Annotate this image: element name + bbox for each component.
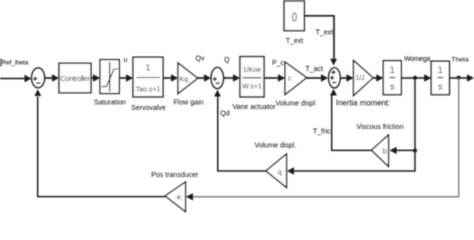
svg-text:P_c: P_c [272,60,285,67]
wire 0 block to sum3 top [304,16,334,60]
wire S1 to Controller [45,77,53,79]
node Theta junction [457,76,461,80]
saturation icon [109,62,111,92]
wire Vane to gain c [264,77,279,79]
block Controller [59,63,91,92]
wire S3 to 1/J [340,77,347,79]
svg-text:b: b [383,147,387,156]
wire tap to gain b [396,149,415,151]
wire S2 to Vane actuator [224,77,234,79]
wire 1/J to integrator1 [373,77,377,79]
svg-text:Servovalve: Servovalve [131,105,166,112]
svg-text:T_ext: T_ext [316,30,334,37]
svg-text:Controller: Controller [60,74,90,83]
svg-text:u: u [124,57,128,64]
gain -K (Pos transducer) [165,182,185,212]
svg-text:Viscous friction: Viscous friction [357,124,404,131]
svg-text:Kq: Kq [180,77,189,84]
wire c to sum3 [307,77,321,79]
svg-text:Volume displ.: Volume displ. [255,143,297,150]
wire integrator1 to integrator2 [401,77,425,79]
gain 1/J (Inertia moment) [354,61,374,96]
svg-text:1: 1 [438,65,443,75]
node Womega junction [413,76,417,80]
block Saturation [100,60,119,94]
svg-text:Womega: Womega [404,56,430,63]
svg-text:Flow gain: Flow gain [174,99,204,106]
svg-text:1: 1 [146,62,151,72]
block integrator 1 [383,61,401,95]
gain q (Volume displ feedback) [266,154,287,188]
S1 plus sign [33,77,37,81]
node b/q tap junction [413,149,417,153]
block Vane actuator [240,57,264,97]
wire Servovalve to Kq [163,77,171,79]
svg-text:Q: Q [224,57,230,64]
wire q to S2 bottom (Qd) [218,97,266,172]
S3 minus sign [332,82,336,84]
svg-text:Qv: Qv [196,56,205,63]
svg-text:1/Koe: 1/Koe [243,67,261,74]
input port tick [0,59,2,67]
svg-text:T_fric: T_fric [313,129,331,136]
gain c (Volume displ) [285,62,307,95]
sum junction S3 (inertia) [329,68,341,88]
svg-text:Inertia moment:: Inertia moment: [336,99,390,108]
S2 minus sign [216,82,220,84]
wire integrator2 to output [449,77,467,79]
sum junction S1 [31,68,44,88]
svg-text:Volume displ: Volume displ [276,101,316,108]
svg-text:Vane actuator: Vane actuator [232,104,276,111]
wire input to sum1 [0,78,25,80]
svg-text:s: s [438,82,443,92]
svg-text:1: 1 [390,65,395,75]
svg-text:Tao.s+1: Tao.s+1 [136,87,161,94]
wire Saturation to Servovalve [119,77,126,79]
svg-text:Pos transducer: Pos transducer [151,172,199,179]
gain Kq (Flow gain) [178,63,198,94]
wire Theta feedback down and across [193,78,459,197]
svg-text:Saturation: Saturation [94,100,126,107]
svg-text:W.s+1: W.s+1 [242,84,262,91]
svg-text:Qd: Qd [220,111,229,118]
svg-text:s: s [390,82,395,92]
svg-text:T_ext: T_ext [286,38,304,45]
svg-text:1/J: 1/J [355,75,364,82]
S2 plus sign [213,77,217,81]
S3 top plus sign [331,70,335,74]
block Servovalve transfer fcn [133,57,163,97]
svg-text:Theta: Theta [451,56,469,63]
sum junction S2 [211,67,224,88]
wire Kq to sum2 [198,77,205,79]
S3 left plus sign [330,76,334,80]
svg-text:Ref_theta: Ref_theta [2,60,29,67]
constant block 0 (T_ext) [284,1,304,31]
wire -K to S1 bottom [38,97,166,197]
svg-text:q: q [278,169,282,176]
wire b to S3 bottom (T_fric) [332,95,372,150]
svg-text:c: c [288,76,292,83]
block integrator 2 [431,61,449,94]
svg-text:0: 0 [292,10,297,24]
wire tap down to gain q [294,151,416,172]
S1 minus sign [36,82,40,84]
wire Controller to Saturation [91,77,94,79]
wire Womega tap down [414,78,416,151]
svg-text:T_act: T_act [306,66,324,73]
gain b (Viscous friction) [372,135,389,167]
svg-text:-K: -K [175,194,182,201]
